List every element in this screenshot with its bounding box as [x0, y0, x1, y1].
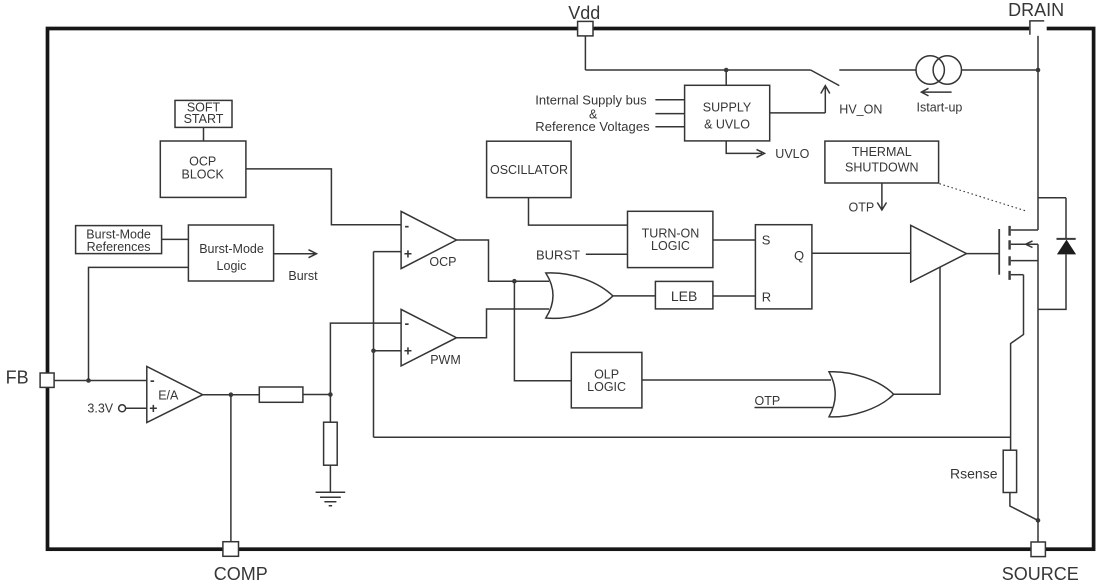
wire OR2 output up to driver enable: [894, 267, 940, 395]
wire SOFT START to OCP BLOCK: [203, 127, 205, 140]
resistor R1 (COMP series): [259, 387, 303, 402]
svg-text:-: -: [150, 372, 155, 388]
pin Vdd: [578, 21, 593, 36]
wire BURST to TURN-ON LOGIC: [586, 253, 628, 255]
svg-text:SOURCE: SOURCE: [1002, 564, 1079, 584]
transistor MOSFET drain stub: [1011, 229, 1038, 231]
svg-text:References: References: [87, 240, 151, 254]
svg-text:Istart-up: Istart-up: [917, 101, 963, 115]
block LEB: [655, 281, 713, 309]
svg-text:E/A: E/A: [158, 388, 179, 402]
wire PWM output to OR1: [457, 309, 550, 338]
wire LEB output to R input: [713, 295, 756, 297]
wire E/A output to resistor: [203, 394, 260, 396]
svg-text:Rsense: Rsense: [950, 466, 998, 482]
block OSCILLATOR: [487, 141, 571, 197]
comparator OCP: [401, 211, 456, 268]
label Istart-up with left arrow: [921, 88, 951, 96]
wire to PWM plus: [374, 350, 402, 352]
svg-text:SUPPLY: SUPPLY: [703, 100, 752, 114]
wire Burst output arrow: [274, 250, 317, 258]
svg-text:R: R: [762, 289, 771, 304]
svg-text:Burst-Mode: Burst-Mode: [199, 242, 264, 256]
driver buffer triangle: [911, 225, 967, 282]
current source Istart-up: [916, 56, 944, 84]
transistor MOSFET source stub: [1011, 260, 1038, 262]
svg-text:LOGIC: LOGIC: [651, 239, 690, 253]
svg-text:START: START: [184, 112, 224, 126]
wire top supply bus: [585, 69, 810, 71]
block SOFT START: [175, 100, 232, 127]
block TURN-ON LOGIC: [628, 211, 713, 267]
wire current sense feedback line: [374, 436, 1011, 438]
switch HV_ON blade (open): [811, 70, 840, 86]
node PWM plus junction: [371, 349, 376, 354]
wire shunt resistor to ground: [329, 465, 331, 492]
svg-text:Internal Supply bus: Internal Supply bus: [535, 93, 647, 108]
pin FB: [40, 373, 54, 387]
resistor Rsense: [1003, 450, 1016, 492]
node FB junction: [86, 378, 91, 383]
wire Burst-Mode References to Logic: [162, 238, 189, 240]
wire tap down to SUPPLY & UVLO: [725, 70, 727, 85]
wire OCP comparator output to OR1: [457, 240, 550, 281]
svg-text:OTP: OTP: [849, 201, 875, 215]
comparator PWM: [401, 309, 456, 366]
transistor MOSFET gate bar: [998, 229, 1000, 275]
svg-text:S: S: [762, 232, 771, 247]
block Burst-Mode References: [76, 226, 162, 254]
svg-text:SHUTDOWN: SHUTDOWN: [845, 160, 919, 174]
resistor R2 (shunt to ground): [324, 422, 338, 465]
wire UVLO output arrow: [726, 141, 764, 158]
svg-text:LEB: LEB: [671, 288, 697, 304]
svg-text:FB: FB: [6, 368, 29, 388]
block SUPPLY & UVLO: [685, 85, 770, 141]
wire to OCP plus: [374, 251, 402, 253]
transistor MOSFET channel segments: [1008, 226, 1010, 280]
svg-text:-: -: [405, 218, 410, 234]
node drain line junction: [1036, 68, 1041, 73]
wire resistor node up to PWM minus: [330, 323, 401, 394]
wire node down to shunt resistor: [329, 395, 331, 423]
svg-text:& UVLO: & UVLO: [704, 117, 750, 131]
op-amp E/A error amplifier: [147, 367, 203, 423]
wire OLP LOGIC output to OR2: [642, 379, 831, 381]
wire resistor to node: [303, 394, 331, 396]
wire FB pad to E/A minus: [54, 380, 147, 382]
svg-text:+: +: [404, 342, 412, 358]
svg-text:COMP: COMP: [214, 564, 268, 584]
wire Vdd pad to top bus: [584, 36, 586, 70]
wire HV_ON control arrow from SUPPLY & UVLO: [770, 86, 830, 113]
wire diode branch top: [1038, 198, 1066, 239]
svg-text:BURST: BURST: [536, 247, 580, 262]
wire junction down to OLP LOGIC: [514, 281, 571, 381]
wire FB junction up to Burst-Mode Logic: [89, 267, 189, 380]
wire current source to drain line: [962, 69, 1039, 71]
diode body diode: [1057, 238, 1076, 240]
node source junction: [1036, 518, 1041, 523]
block SR latch: [755, 225, 812, 309]
block THERMAL SHUTDOWN: [825, 141, 939, 183]
node COMP junction: [229, 392, 234, 397]
svg-text:THERMAL: THERMAL: [852, 145, 912, 159]
node divider junction: [328, 392, 333, 397]
wire supply input stubs: [655, 100, 684, 127]
svg-text:+: +: [149, 400, 157, 416]
wire switch to start-up current source: [839, 69, 916, 71]
node 3.3V terminal circle: [119, 405, 126, 412]
wire Rsense bottom diagonal to source junction: [1010, 493, 1038, 521]
svg-text:OCP: OCP: [189, 155, 216, 169]
wire dotted thermal link to MOSFET: [939, 184, 1027, 212]
wire OR1 output to LEB: [613, 295, 656, 297]
svg-text:BLOCK: BLOCK: [182, 168, 225, 182]
pin DRAIN (open pad): [1029, 20, 1047, 36]
svg-text:OSCILLATOR: OSCILLATOR: [490, 163, 568, 177]
node OCP output junction: [512, 279, 517, 284]
wire 3.3V to E/A plus: [126, 407, 147, 409]
wire driver output to MOSFET gate: [967, 253, 1000, 255]
wire source junction to SOURCE pad: [1037, 520, 1039, 542]
transistor MOSFET sense stub: [1011, 274, 1024, 276]
svg-text:LOGIC: LOGIC: [587, 380, 626, 394]
node supply tap junction: [724, 68, 729, 73]
svg-text:+: +: [404, 245, 412, 261]
svg-text:3.3V: 3.3V: [87, 401, 113, 415]
wire TURN-ON LOGIC to S input: [713, 239, 756, 241]
svg-text:OCP: OCP: [429, 255, 456, 269]
block OCP BLOCK: [160, 141, 246, 197]
svg-text:HV_ON: HV_ON: [839, 103, 882, 117]
wire diode branch bottom: [1038, 254, 1066, 309]
wire sense vertical to comparator plus inputs: [373, 252, 375, 438]
svg-text:-: -: [405, 315, 410, 331]
wire oscillator output to TURN-ON LOGIC: [529, 198, 628, 226]
gate OR1: [546, 273, 613, 318]
svg-text:Burst: Burst: [288, 269, 318, 283]
block OLP LOGIC: [571, 352, 642, 408]
pin SOURCE: [1031, 542, 1045, 557]
pin COMP: [223, 542, 239, 557]
svg-text:Logic: Logic: [217, 259, 247, 273]
block Burst-Mode Logic: [188, 225, 273, 281]
wire down to COMP pad: [230, 395, 232, 542]
transistor MOSFET body stub with arrow: [1011, 241, 1038, 248]
gate OR2 (OLP/OTP): [829, 372, 894, 417]
svg-text:Vdd: Vdd: [568, 3, 600, 23]
wire sense tap from MOSFET to Rsense: [1011, 275, 1024, 451]
svg-text:Reference Voltages: Reference Voltages: [535, 119, 650, 134]
wire Q output to driver: [812, 252, 911, 254]
wire OCP BLOCK output to OCP comparator minus: [246, 169, 401, 225]
wire drain vertical: [1037, 30, 1039, 230]
svg-text:DRAIN: DRAIN: [1008, 0, 1064, 20]
svg-text:Q: Q: [794, 248, 804, 263]
wire OTP to OR2: [755, 407, 834, 409]
svg-text:PWM: PWM: [430, 353, 461, 367]
ground: [316, 492, 346, 506]
wire MOSFET source down to source junction: [1037, 244, 1039, 520]
svg-text:OTP: OTP: [755, 394, 781, 408]
svg-text:UVLO: UVLO: [775, 147, 809, 161]
